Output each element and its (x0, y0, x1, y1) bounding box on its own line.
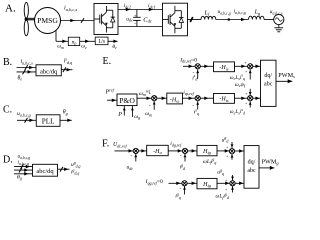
svg-text:ωeLsisq: ωeLsisq (230, 74, 245, 81)
svg-text:-: - (180, 153, 182, 159)
svg-text:-His: -His (219, 65, 229, 71)
svg-text:P: P (117, 112, 122, 118)
svg-text:abc: abc (264, 82, 273, 88)
svg-text:D.: D. (3, 155, 13, 166)
svg-text:+: + (134, 13, 137, 18)
svg-text:-: - (130, 152, 132, 158)
svg-text:-Hω: -Hω (170, 97, 179, 103)
svg-text:udc: udc (127, 165, 134, 171)
svg-text:np: np (72, 39, 77, 45)
svg-text:idc2: idc2 (124, 3, 131, 9)
svg-text:dq/: dq/ (248, 160, 256, 166)
svg-text:ia,b,c,s: ia,b,c,s (21, 59, 34, 66)
svg-text:-: - (134, 21, 136, 27)
svg-text:θe: θe (18, 75, 23, 81)
svg-text:-: - (192, 103, 194, 109)
svg-text:abc/dq: abc/dq (40, 68, 58, 75)
svg-text:Hig: Hig (202, 182, 212, 188)
svg-text:iqs,ref: iqs,ref (183, 90, 194, 97)
svg-text:PMSG: PMSG (37, 16, 58, 25)
svg-text:C.: C. (3, 105, 12, 116)
svg-text:-Hu: -Hu (153, 149, 162, 155)
svg-text:abc: abc (247, 168, 256, 174)
svg-text:θg: θg (63, 110, 68, 116)
svg-text:P&O: P&O (119, 96, 135, 105)
svg-text:1/s: 1/s (98, 39, 106, 45)
svg-text:idg,ref: idg,ref (170, 141, 182, 148)
svg-text:ua,b,c,g: ua,b,c,g (17, 111, 31, 118)
svg-text:ωeψf: ωeψf (235, 82, 246, 88)
svg-text:PWMs: PWMs (278, 72, 295, 79)
svg-text:A.: A. (5, 3, 16, 15)
svg-text:ωm: ωm (145, 111, 152, 117)
svg-text:abc/dq: abc/dq (36, 168, 54, 175)
svg-text:-: - (179, 186, 181, 192)
svg-text:Hig: Hig (202, 149, 212, 155)
svg-text:PLL: PLL (42, 117, 55, 125)
svg-text:θg: θg (17, 174, 22, 180)
svg-text:udc: udc (126, 16, 133, 22)
svg-text:B.: B. (3, 57, 12, 68)
svg-text:E.: E. (103, 56, 112, 67)
svg-text:dq/: dq/ (264, 73, 272, 79)
svg-text:ωeLsisd: ωeLsisd (230, 108, 245, 115)
svg-text:ωg: ωg (134, 114, 140, 120)
svg-text:-: - (149, 102, 151, 108)
svg-text:idc1: idc1 (148, 3, 155, 9)
svg-text:F.: F. (102, 139, 109, 150)
svg-text:-His: -His (219, 97, 229, 103)
